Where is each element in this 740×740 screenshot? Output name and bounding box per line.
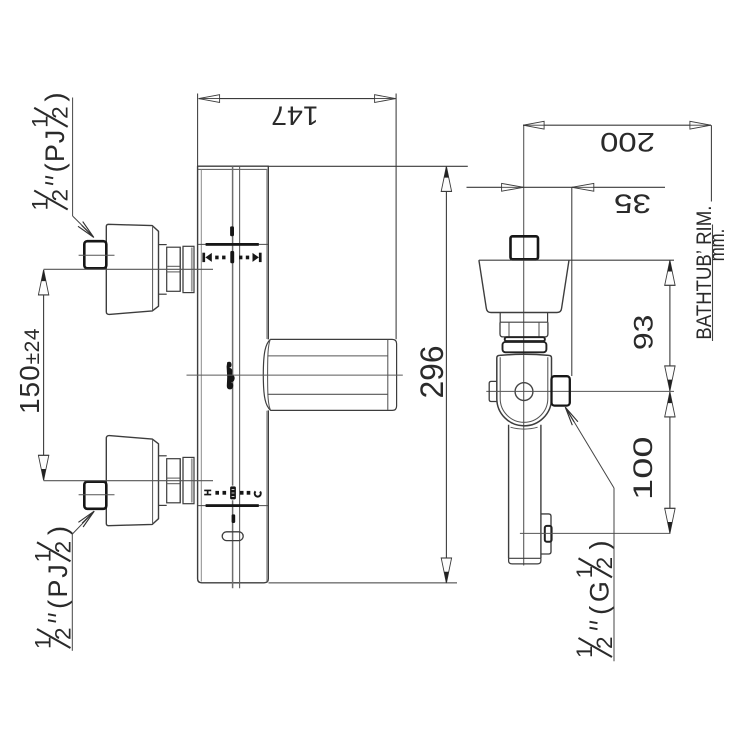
dimension 35: [467, 186, 666, 188]
lower escutcheon shading: [191, 459, 193, 503]
dimension 100: [669, 392, 671, 533]
body inner right edge upper: [266, 169, 268, 339]
svg-text:(: (: [43, 600, 73, 609]
svg-text:mm.: mm.: [705, 229, 729, 262]
dimension 150±24: [43, 270, 45, 480]
upper escutcheon shading: [191, 248, 193, 292]
valve circle: [515, 383, 533, 401]
down pipe: [508, 425, 510, 559]
upper index tick on centerline: [230, 226, 234, 236]
spout inner end arc: [268, 339, 271, 410]
valve body inner: [500, 357, 548, 422]
lower handle ring: [179, 459, 181, 503]
147 left extension line: [197, 94, 199, 167]
mixer body outline: [198, 166, 269, 583]
lower index tick on centerline: [232, 514, 236, 523]
svg-text:200: 200: [600, 127, 655, 157]
svg-text:): ): [43, 526, 73, 535]
side hex nut: [500, 322, 548, 337]
296 bottom extension line: [269, 582, 458, 584]
dimension 296: [445, 166, 447, 583]
lower handle axis / extension line: [44, 480, 213, 482]
upper handle axis / extension line: [44, 268, 213, 270]
svg-text:PJ: PJ: [43, 562, 73, 597]
lower escutcheon dark band: [198, 505, 268, 507]
upper label leader: [72, 98, 74, 217]
G label leader: [613, 488, 615, 661]
bathtub rim underline: [712, 225, 714, 342]
svg-text:2: 2: [48, 189, 73, 202]
spout upper silhouette line: [267, 355, 387, 357]
flange ring: [503, 342, 547, 352]
body inner left edge: [200, 169, 202, 581]
right outlet tab G1/2: [552, 376, 570, 405]
body centerline pair: [232, 166, 234, 588]
upper inlet nipple PJ1/2: [84, 241, 106, 268]
svg-text:35: 35: [614, 188, 651, 218]
valve center horizontal line + 93/100 extension: [486, 390, 674, 392]
dimension 200: [523, 124, 711, 126]
side knob top edge + 93 extension: [479, 259, 674, 261]
side handle knob: [479, 260, 569, 312]
spout centerline: [187, 374, 403, 376]
svg-text:93: 93: [629, 315, 659, 351]
lower inlet nipple PJ1/2: [84, 482, 106, 509]
svg-text:100: 100: [628, 436, 658, 500]
upper handle hex nut: [167, 247, 181, 291]
svg-text:(: (: [40, 163, 70, 172]
lower handle hex nut: [167, 459, 181, 503]
pipe side port: [541, 514, 551, 554]
body inner right edge lower: [266, 411, 268, 582]
svg-text:2: 2: [51, 541, 76, 554]
296 top extension line: [269, 165, 468, 167]
label 1/2"(PJ1/2) upper: [28, 93, 73, 211]
lower label leader: [71, 534, 73, 651]
dimension 93: [669, 260, 671, 391]
upper handle neck: [159, 244, 167, 246]
svg-text:(: (: [585, 606, 615, 615]
svg-text:2: 2: [592, 636, 617, 649]
upper knob seam: [152, 227, 154, 311]
handle stem square: [511, 236, 539, 259]
pipe hidden top arc: [511, 427, 538, 429]
svg-text:G: G: [585, 578, 615, 602]
svg-text:296: 296: [414, 346, 450, 399]
lower handle neck: [159, 455, 167, 457]
35 extension line to outlet: [571, 187, 573, 376]
spout outline: [263, 339, 396, 410]
svg-text:): ): [585, 541, 615, 550]
upper escutcheon dark band: [198, 243, 268, 245]
svg-text:PJ: PJ: [40, 129, 70, 162]
pipe bottom cap: [509, 558, 541, 564]
lower escutcheon: [183, 457, 194, 503]
label 1/2"(PJ1/2) lower: [31, 526, 76, 649]
lower knob seam: [152, 440, 154, 524]
dark ring: [505, 337, 545, 341]
svg-text:147: 147: [271, 101, 319, 131]
side neck: [499, 313, 501, 323]
body cap seam line: [198, 168, 267, 170]
lower handle knob: [106, 436, 158, 526]
200 right extension line: [710, 125, 712, 201]
lower nipple centerline: [79, 494, 115, 496]
label 1/2"(G1/2): [572, 541, 617, 659]
valve body outer: [497, 354, 552, 426]
temperature scale pointer marks: [227, 362, 235, 390]
pipe port boss: [545, 526, 552, 542]
upper handle ring: [179, 247, 181, 291]
upper temperature adjust arrow row: [202, 253, 205, 262]
side view centerline: [523, 125, 525, 565]
svg-text:2: 2: [592, 557, 617, 570]
port axis + 100 extension: [520, 532, 671, 534]
svg-text:2: 2: [48, 106, 73, 119]
upper nipple centerline: [79, 254, 115, 256]
spout lower silhouette line: [267, 393, 387, 395]
upper handle knob: [106, 224, 158, 314]
oval slot on bottom cap: [222, 532, 243, 541]
svg-text:2: 2: [51, 627, 76, 640]
upper escutcheon: [183, 246, 194, 292]
svg-text:): ): [40, 93, 70, 102]
spout end cap seam: [387, 340, 389, 410]
147 right extension line: [395, 94, 397, 340]
dimension 147: [199, 98, 396, 100]
left small tab: [489, 381, 497, 401]
lower flow row H..C: [204, 490, 211, 496]
